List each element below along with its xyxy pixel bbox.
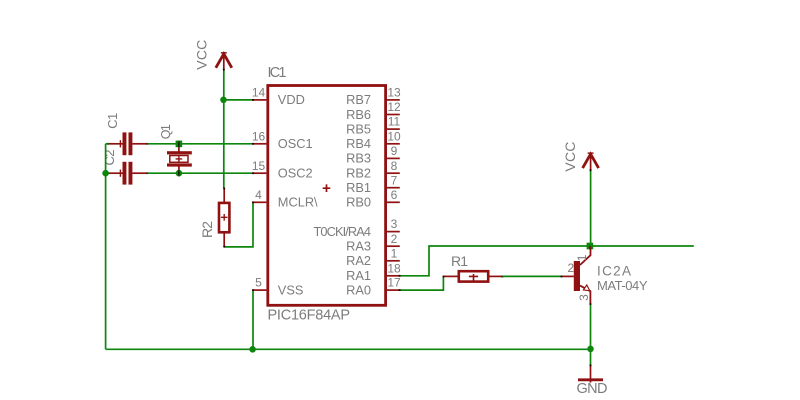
capacitor C1 [107,132,149,155]
pin 8 RB2 [346,159,400,181]
svg-text:4: 4 [255,188,262,202]
svg-text:18: 18 [387,261,401,275]
svg-text:9: 9 [391,144,398,158]
pin 3 T0CKI/RA4 [314,217,400,239]
svg-text:12: 12 [387,100,401,114]
pin 4 MCLR\ [253,188,318,210]
pin 12 RB6 [346,100,401,122]
svg-text:Q1: Q1 [159,124,173,139]
node crystal top junction (square) [176,141,183,148]
label Q1 [159,124,173,139]
node emitter rail junction [587,346,594,353]
svg-text:VSS: VSS [278,282,304,297]
wire left ground drop [105,144,107,349]
svg-text:11: 11 [388,115,401,129]
crystal Q1 [167,141,192,177]
svg-text:VCC: VCC [562,142,578,172]
pin number 2 (base) [568,261,575,275]
node collector junction [587,243,594,250]
label VCC (left) [193,40,209,70]
svg-text:2: 2 [568,261,575,275]
svg-text:3: 3 [577,294,591,301]
svg-text:14: 14 [252,86,266,100]
label IC1 [268,65,287,81]
svg-text:C2: C2 [102,150,117,166]
wire OSC2 net (C2 left to junction) [106,172,109,174]
svg-text:8: 8 [391,159,398,173]
transistor Q IC2A [561,247,591,305]
svg-text:13: 13 [387,86,401,100]
svg-text:7: 7 [391,173,398,187]
svg-text:RB7: RB7 [346,92,371,107]
svg-text:RB0: RB0 [346,195,371,210]
wire OSC1 net (C1 left to ground drop corner) [106,143,109,145]
wire R1 to base [502,275,561,277]
label C2 [102,150,117,166]
svg-text:17: 17 [387,276,401,290]
pin 7 RB1 [346,173,400,195]
svg-text:PIC16F84AP: PIC16F84AP [268,308,351,324]
svg-text:RB1: RB1 [346,180,371,195]
svg-text:RA3: RA3 [346,239,371,254]
svg-text:RB4: RB4 [346,136,371,151]
wire VDD node down to R2 [223,100,225,188]
svg-text:RB2: RB2 [346,166,371,181]
IC IC1 PIC16F84AP body [268,86,386,306]
pin 14 VDD [252,86,305,108]
svg-text:RA0: RA0 [346,282,371,297]
svg-text:GND: GND [577,381,608,397]
wire VDD node to pin 14 [224,99,253,101]
svg-text:IC1: IC1 [268,65,287,81]
svg-text:RB3: RB3 [346,151,371,166]
wire VCC1 stem down to VDD node [223,70,225,100]
wire rail to GND [590,349,592,365]
svg-text:VCC: VCC [193,40,209,70]
wire emitter to rail [590,304,592,349]
svg-text:MAT-04Y: MAT-04Y [597,278,648,293]
IC1 origin cross [323,184,331,192]
label VCC (right) [562,142,578,172]
svg-text:2: 2 [391,232,398,246]
label C1 [105,113,120,129]
pin 6 RB0 [346,188,400,210]
wire OSC1 net (C1 right to pin 16) [147,143,253,145]
svg-text:1: 1 [575,254,589,261]
node crystal bottom junction [176,170,183,177]
label GND [577,381,608,397]
resistor R1 [443,271,504,281]
svg-text:16: 16 [252,129,266,143]
value PIC16F84AP [268,308,351,324]
svg-text:T0CKI/RA4: T0CKI/RA4 [314,224,372,239]
svg-text:RB6: RB6 [346,107,371,122]
capacitor C2 [107,162,149,185]
pin 11 RB5 [346,115,400,137]
svg-text:C1: C1 [105,113,120,129]
label R1 [451,253,468,269]
label R2 [199,221,215,238]
svg-text:15: 15 [252,159,266,173]
svg-text:OSC1: OSC1 [278,136,313,151]
wire R2 bottom to MCLR [224,202,253,247]
svg-text:1: 1 [391,246,398,260]
svg-text:R2: R2 [199,221,215,238]
wire OSC2 net (C2 right to pin 15) [147,172,253,174]
pin 10 RB4 [346,129,401,151]
pin 5 VSS [253,276,303,298]
svg-text:3: 3 [391,217,398,231]
svg-text:6: 6 [391,188,398,202]
pin 9 RB3 [346,144,400,166]
svg-text:MCLR\: MCLR\ [278,195,318,210]
svg-text:RA1: RA1 [346,268,371,283]
svg-text:RA2: RA2 [346,253,371,268]
node pin-end dots [223,69,592,367]
power VCC symbol (right) [583,153,599,172]
svg-text:5: 5 [255,276,262,290]
svg-text:VDD: VDD [278,92,305,107]
node VDD junction [220,97,227,104]
pin 2 RA3 [346,232,400,254]
resistor R2 [219,188,229,247]
svg-text:OSC2: OSC2 [278,166,313,181]
power VCC symbol (left) [216,53,232,70]
pin 16 OSC1 [252,129,313,151]
svg-text:RB5: RB5 [346,121,371,136]
pin 15 OSC2 [252,159,313,181]
pin 17 RA0 [346,276,401,298]
pin 1 RA2 [346,246,400,268]
wire RA1 to collector line [400,246,694,276]
pin 18 RA1 [346,261,401,283]
pin 13 RB7 [346,86,401,108]
pin number 1 (collector) [575,254,589,261]
wire ground rail [106,348,591,350]
wire RA0 to R1 [400,276,444,290]
node VSS rail junction [249,346,256,353]
wire VSS drop [252,290,254,349]
svg-text:R1: R1 [451,253,468,269]
wire VCC2 stem down to collector node [590,170,592,246]
label IC2A [597,263,631,278]
pin number 3 (emitter) [577,294,591,301]
value MAT-04Y [597,278,648,293]
svg-text:10: 10 [387,129,401,143]
node C2 left junction [102,170,109,177]
svg-text:IC2A: IC2A [597,263,631,278]
ground GND symbol [578,365,603,382]
